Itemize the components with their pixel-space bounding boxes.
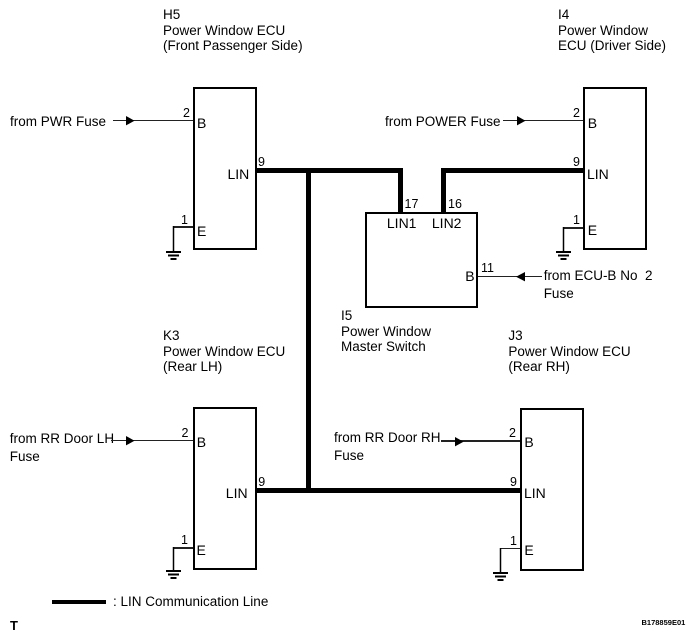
connector J3 caption xyxy=(508,328,630,375)
connector H5 caption xyxy=(163,7,303,54)
pin name LIN2 (I5) xyxy=(432,216,462,230)
pin name B (K3) xyxy=(197,435,206,449)
label from POWER Fuse xyxy=(385,114,501,130)
label from PWR Fuse xyxy=(10,114,106,130)
ground (I4) xyxy=(555,227,573,260)
pin name B (H5) xyxy=(197,116,206,130)
legend LIN line sample xyxy=(52,600,106,604)
wire J3 pin 2 feed xyxy=(441,440,520,442)
wire H5 pin 2 feed xyxy=(113,120,193,122)
connector I5 caption xyxy=(341,308,431,355)
connector K3 caption xyxy=(163,328,285,375)
pin number 1 (H5 E) xyxy=(176,214,188,227)
wire K3 pin 1 to ground xyxy=(173,547,193,549)
arrowhead into J3 pin 2 xyxy=(455,437,465,447)
figure number B178859E01 xyxy=(642,619,686,627)
pin number 2 (I4 B) xyxy=(568,107,580,120)
connector I4 caption xyxy=(558,7,666,54)
connector J3 box (Power Window ECU Rear RH) xyxy=(520,408,584,571)
pin number 9 (K3 LIN) xyxy=(258,476,265,489)
wire H5 pin 1 to ground xyxy=(173,226,193,228)
page marker T xyxy=(10,619,18,632)
pin number 2 (K3 B) xyxy=(177,427,189,440)
LIN bus wire rise from I5 pin 16 xyxy=(441,168,446,212)
ground (K3) xyxy=(165,547,183,581)
arrowhead into K3 pin 2 xyxy=(126,436,136,446)
ground (H5) xyxy=(165,226,183,260)
arrowhead into I4 pin 2 xyxy=(517,116,527,126)
pin number 1 (I4 E) xyxy=(568,214,580,227)
pin number 9 (J3 LIN) xyxy=(505,476,517,489)
legend text LIN Communication Line xyxy=(113,594,268,610)
pin number 1 (J3 E) xyxy=(505,535,517,548)
pin name B (J3) xyxy=(524,435,533,449)
connector K3 box (Power Window ECU Rear LH) xyxy=(193,407,257,570)
LIN bus wire drop to I5 pin 17 xyxy=(398,168,403,212)
connector H5 box (Power Window ECU Front Passenger Side) xyxy=(193,87,257,250)
pin name LIN (H5) xyxy=(228,167,250,181)
pin name E (H5) xyxy=(197,224,206,238)
connector I4 box (Power Window ECU Driver Side) xyxy=(583,87,647,250)
pin number 1 (K3 E) xyxy=(176,534,188,547)
ground (J3) xyxy=(492,548,510,582)
arrowhead into H5 pin 2 xyxy=(126,116,136,126)
pin name LIN1 (I5) xyxy=(387,216,417,230)
wire J3 pin 1 to ground xyxy=(500,548,520,550)
pin name B (I5) xyxy=(465,269,474,283)
label from RR Door RH Fuse xyxy=(334,429,441,464)
pin name LIN (K3) xyxy=(226,486,248,500)
wire I5 pin 11 feed xyxy=(478,276,542,278)
pin number 17 (I5 LIN1) xyxy=(405,198,419,211)
pin name LIN (I4) xyxy=(587,167,609,181)
LIN bus wire H5 pin 9 horizontal segment xyxy=(255,168,403,173)
wire I4 pin 1 to ground xyxy=(563,227,583,229)
pin name E (J3) xyxy=(524,543,533,557)
wire I4 pin 2 feed xyxy=(503,120,583,122)
pin name E (I4) xyxy=(588,223,597,237)
pin number 2 (J3 B) xyxy=(504,427,516,440)
pin number 9 (I4 LIN) xyxy=(568,156,580,169)
pin number 11 (I5 B) xyxy=(481,262,494,275)
LIN bus trunk vertical wire xyxy=(306,168,311,493)
pin name B (I4) xyxy=(588,116,597,130)
pin number 16 (I5 LIN2) xyxy=(448,198,462,211)
label from RR Door LH Fuse xyxy=(10,430,114,465)
connector I5 box (Power Window Master Switch) xyxy=(365,212,478,308)
pin number 2 (H5 B) xyxy=(178,107,190,120)
LIN bus wire to I4 pin 9 horizontal segment xyxy=(441,168,583,173)
arrowhead into I5 pin 11 xyxy=(516,272,526,282)
pin number 9 (H5 LIN) xyxy=(258,156,265,169)
LIN bus bottom horizontal wire K3 to J3 xyxy=(255,488,520,493)
wire K3 pin 2 feed xyxy=(111,440,193,442)
pin name LIN (J3) xyxy=(524,486,546,500)
label from ECU-B No 2 Fuse xyxy=(544,267,653,302)
pin name E (K3) xyxy=(197,543,206,557)
